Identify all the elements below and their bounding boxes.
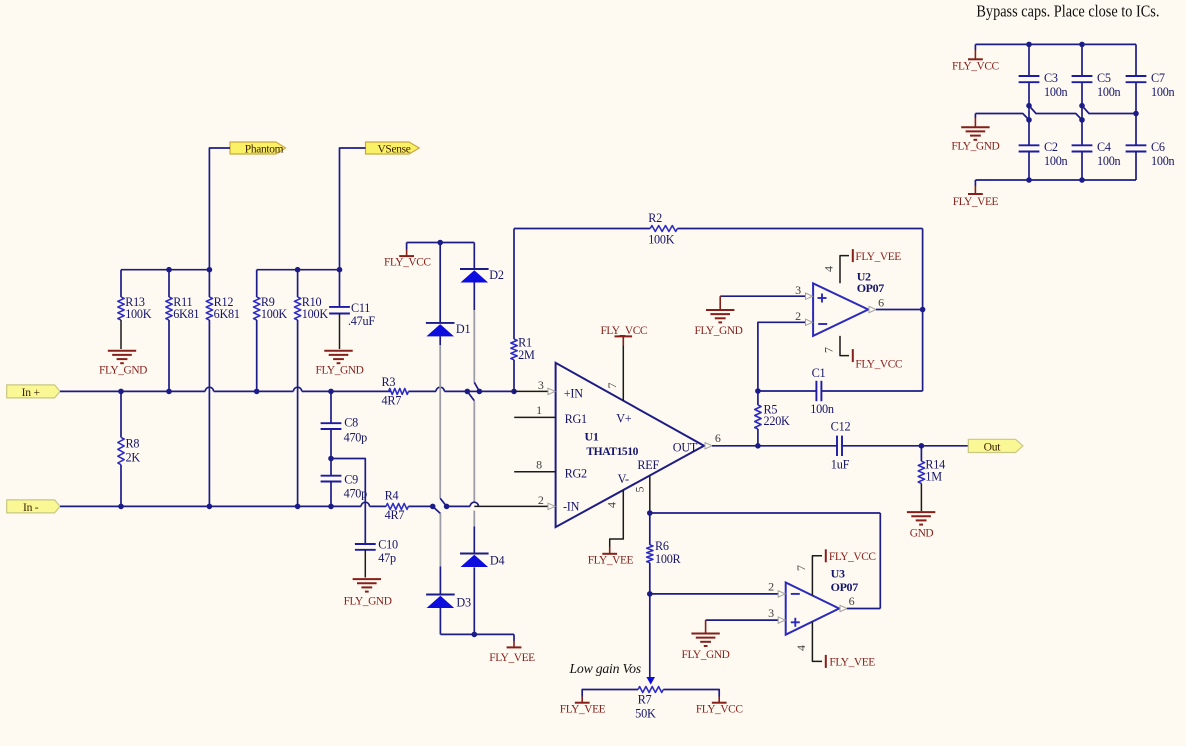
- svg-text:100n: 100n: [1151, 154, 1175, 168]
- power FLY_VCC: [384, 243, 431, 269]
- svg-text:FLY_VCC: FLY_VCC: [384, 256, 431, 268]
- junction: [1026, 42, 1032, 48]
- svg-text:FLY_GND: FLY_GND: [344, 596, 392, 608]
- wire: [479, 390, 514, 392]
- op-amp U3: [786, 566, 859, 634]
- svg-text:In +: In +: [22, 386, 40, 399]
- capacitor C1: [810, 366, 834, 416]
- svg-text:C6: C6: [1151, 140, 1165, 154]
- ground FLY_GND: [682, 620, 730, 661]
- junction: [1079, 103, 1085, 109]
- svg-text:Bypass caps. Place close to IC: Bypass caps. Place close to ICs.: [976, 1, 1159, 20]
- junction: [118, 389, 124, 395]
- wire: [1135, 82, 1137, 145]
- svg-text:100n: 100n: [1044, 85, 1068, 99]
- svg-text:FLY_VEE: FLY_VEE: [588, 555, 634, 567]
- wire: [447, 505, 471, 507]
- svg-text:OP07: OP07: [857, 281, 885, 295]
- svg-text:FLY_GND: FLY_GND: [695, 325, 743, 337]
- resistor R14: [918, 446, 945, 511]
- svg-text:6K81: 6K81: [214, 307, 240, 321]
- svg-text:220K: 220K: [764, 414, 791, 428]
- svg-text:C8: C8: [344, 416, 358, 430]
- ground FLY_GND: [316, 351, 364, 377]
- power FLY_VEE: [560, 697, 606, 716]
- pin 7: [821, 336, 902, 371]
- diode D2: [460, 243, 504, 311]
- svg-text:4R7: 4R7: [382, 394, 402, 408]
- junction: [647, 591, 653, 597]
- svg-text:100K: 100K: [648, 232, 675, 246]
- svg-text:THAT1510: THAT1510: [586, 445, 638, 458]
- pin 2: [758, 309, 813, 391]
- wire: [1135, 44, 1137, 76]
- junction: [1079, 117, 1085, 123]
- svg-text:100K: 100K: [302, 307, 329, 321]
- svg-text:4: 4: [821, 266, 835, 272]
- pin 6: [869, 295, 923, 312]
- diode D3: [426, 595, 471, 635]
- pin 3: [706, 606, 786, 623]
- svg-text:V+: V+: [616, 412, 632, 426]
- pin 3: [514, 378, 555, 394]
- port In+: [7, 385, 60, 399]
- svg-text:470p: 470p: [344, 431, 368, 445]
- diode D4: [460, 554, 504, 635]
- svg-text:D4: D4: [490, 554, 505, 568]
- svg-text:100K: 100K: [125, 307, 152, 321]
- power FLY_VEE: [953, 180, 999, 208]
- svg-text:6: 6: [849, 594, 855, 608]
- pin 4: [794, 622, 875, 669]
- svg-text:.47uF: .47uF: [348, 314, 375, 328]
- svg-text:100n: 100n: [1044, 154, 1068, 168]
- wire: [433, 506, 441, 594]
- capacitor C4: [1072, 140, 1121, 168]
- wire: [436, 387, 467, 391]
- wire: [440, 336, 446, 506]
- resistor R8: [118, 391, 141, 506]
- junction: [295, 267, 301, 273]
- svg-text:FLY_VCC: FLY_VCC: [855, 359, 902, 371]
- svg-text:Phantom: Phantom: [245, 143, 284, 155]
- wire: [922, 229, 924, 310]
- svg-text:5: 5: [633, 487, 647, 493]
- resistor R12: [206, 270, 240, 507]
- svg-text:FLY_VEE: FLY_VEE: [855, 251, 901, 263]
- junction: [1026, 117, 1032, 123]
- svg-text:1: 1: [536, 403, 542, 417]
- svg-text:FLY_VEE: FLY_VEE: [829, 657, 875, 669]
- svg-text:FLY_GND: FLY_GND: [951, 141, 999, 153]
- svg-text:Low gain Vos: Low gain Vos: [569, 661, 641, 676]
- svg-text:2M: 2M: [518, 348, 535, 362]
- svg-text:REF: REF: [637, 458, 659, 472]
- wire: [1081, 82, 1083, 145]
- pin 7: [794, 549, 876, 595]
- ground GND: [907, 512, 935, 540]
- wire: [1029, 106, 1082, 120]
- wire: [1135, 152, 1137, 181]
- junction: [511, 389, 517, 395]
- svg-text:FLY_VEE: FLY_VEE: [953, 196, 999, 208]
- junction: [207, 267, 213, 273]
- pin 4: [605, 490, 624, 547]
- svg-text:50K: 50K: [635, 706, 656, 720]
- resistor R6: [647, 513, 682, 594]
- wire: [975, 179, 1136, 181]
- wire: [257, 269, 340, 271]
- junction: [437, 240, 443, 246]
- svg-text:FLY_VEE: FLY_VEE: [489, 652, 535, 664]
- power FLY_VCC: [952, 44, 999, 72]
- wire: [975, 114, 1029, 120]
- capacitor C2: [1019, 140, 1068, 168]
- svg-text:4R7: 4R7: [385, 508, 405, 522]
- svg-text:GND: GND: [910, 528, 934, 540]
- svg-text:C3: C3: [1044, 71, 1058, 85]
- svg-text:R7: R7: [638, 693, 652, 707]
- svg-text:D2: D2: [489, 268, 504, 282]
- svg-text:4: 4: [605, 502, 619, 508]
- capacitor C10: [355, 538, 398, 578]
- svg-text:V-: V-: [618, 472, 629, 486]
- pin 2: [650, 580, 785, 598]
- svg-text:7: 7: [794, 565, 808, 571]
- svg-text:D3: D3: [456, 595, 471, 609]
- note: [569, 661, 641, 676]
- svg-text:C7: C7: [1151, 71, 1165, 85]
- pin 6: [840, 594, 880, 612]
- junction: [647, 510, 653, 516]
- junction: [166, 389, 172, 395]
- pin 5: [633, 476, 650, 513]
- svg-text:2: 2: [795, 309, 801, 323]
- wire: [842, 445, 968, 447]
- junction: [1079, 177, 1085, 183]
- svg-text:FLY_GND: FLY_GND: [99, 365, 147, 377]
- wire: [473, 527, 475, 554]
- svg-text:C2: C2: [1044, 140, 1058, 154]
- svg-text:3: 3: [768, 606, 774, 620]
- svg-text:U3: U3: [831, 566, 845, 580]
- svg-text:R4: R4: [385, 489, 399, 503]
- svg-text:RG2: RG2: [565, 466, 587, 480]
- wire: [821, 310, 922, 392]
- wire: [582, 690, 638, 697]
- capacitor C3: [1019, 71, 1068, 99]
- junction: [920, 307, 926, 313]
- wire: [1081, 152, 1083, 181]
- potentiometer R7: [635, 677, 663, 720]
- junction: [477, 389, 483, 395]
- net flag VSense: [366, 142, 420, 155]
- wire: [1028, 152, 1030, 181]
- junction: [444, 504, 450, 510]
- wire: [712, 445, 837, 447]
- junction: [755, 443, 761, 449]
- capacitor C11: [329, 270, 375, 349]
- wire: [758, 390, 817, 392]
- ground FLY_GND: [695, 296, 743, 337]
- svg-text:C12: C12: [831, 419, 851, 433]
- wire: [650, 513, 881, 609]
- wire: [975, 43, 1136, 45]
- junction: [337, 267, 343, 273]
- pin 1: [514, 403, 555, 417]
- svg-text:FLY_VCC: FLY_VCC: [600, 325, 647, 337]
- svg-text:100n: 100n: [1097, 85, 1121, 99]
- ground FLY_GND: [951, 114, 999, 153]
- junction: [166, 267, 172, 273]
- resistor R3: [382, 375, 437, 408]
- svg-text:OP07: OP07: [831, 580, 859, 594]
- svg-text:FLY_VCC: FLY_VCC: [829, 551, 876, 563]
- wire: [1081, 44, 1083, 76]
- wire: [440, 633, 514, 635]
- svg-text:100n: 100n: [1097, 154, 1121, 168]
- svg-text:6K81: 6K81: [173, 307, 199, 321]
- resistor R1: [511, 229, 535, 392]
- junction: [465, 389, 471, 395]
- wire: [474, 310, 479, 391]
- resistor R10: [294, 270, 328, 507]
- capacitor C9: [321, 459, 368, 507]
- wire: [1028, 82, 1030, 145]
- svg-text:1M: 1M: [925, 470, 942, 484]
- power FLY_VEE: [489, 634, 535, 664]
- svg-text:R2: R2: [648, 211, 662, 225]
- svg-text:C4: C4: [1097, 140, 1111, 154]
- resistor R5: [755, 391, 790, 446]
- wire: [467, 391, 478, 526]
- svg-text:FLY_VCC: FLY_VCC: [952, 61, 999, 73]
- svg-text:100n: 100n: [810, 402, 834, 416]
- ground FLY_GND: [99, 351, 147, 377]
- pin 6: [705, 431, 721, 449]
- junction: [254, 389, 260, 395]
- svg-text:3: 3: [538, 378, 544, 392]
- svg-text:C11: C11: [351, 301, 370, 315]
- wire: [407, 242, 475, 244]
- svg-text:C1: C1: [812, 366, 826, 380]
- svg-text:47p: 47p: [378, 551, 396, 565]
- svg-text:-IN: -IN: [563, 499, 580, 513]
- svg-text:OUT: OUT: [673, 441, 698, 455]
- junction: [755, 388, 761, 394]
- ground FLY_GND: [344, 579, 392, 607]
- wire: [209, 148, 230, 270]
- svg-text:D1: D1: [456, 322, 471, 336]
- svg-text:7: 7: [821, 347, 835, 353]
- junction: [1026, 177, 1032, 183]
- junction: [1079, 42, 1085, 48]
- svg-text:6: 6: [715, 431, 721, 445]
- svg-text:100R: 100R: [655, 552, 682, 566]
- resistor R4: [385, 489, 433, 523]
- svg-text:U1: U1: [585, 430, 599, 444]
- wire: [649, 594, 651, 678]
- junction: [118, 504, 124, 510]
- svg-text:100n: 100n: [1151, 85, 1175, 99]
- svg-text:+IN: +IN: [564, 386, 583, 400]
- diode D1: [426, 243, 471, 337]
- pin 7: [605, 346, 623, 401]
- svg-text:C5: C5: [1097, 71, 1111, 85]
- svg-text:100K: 100K: [261, 307, 288, 321]
- wire: [60, 387, 391, 391]
- junction: [207, 504, 213, 510]
- wire: [1082, 106, 1136, 114]
- svg-text:470p: 470p: [344, 487, 368, 501]
- svg-text:R8: R8: [126, 436, 140, 450]
- svg-text:FLY_VCC: FLY_VCC: [696, 704, 743, 716]
- note: [976, 1, 1159, 20]
- capacitor C8: [321, 391, 368, 458]
- svg-text:In -: In -: [23, 501, 39, 514]
- junction: [1026, 103, 1032, 109]
- wire: [340, 148, 366, 270]
- junction: [472, 632, 478, 638]
- port Out: [968, 439, 1023, 453]
- wire: [467, 390, 479, 392]
- resistor R13: [118, 270, 152, 349]
- wire: [1028, 44, 1030, 76]
- pin 4: [821, 249, 901, 283]
- junction: [328, 504, 334, 510]
- capacitor C5: [1072, 71, 1121, 99]
- junction: [1133, 111, 1139, 117]
- port In-: [7, 500, 60, 514]
- resistor R11: [166, 270, 200, 392]
- svg-text:RG1: RG1: [565, 412, 587, 426]
- svg-text:FLY_GND: FLY_GND: [682, 649, 730, 661]
- svg-text:6: 6: [878, 295, 884, 309]
- wire: [60, 502, 386, 506]
- pin 2: [474, 493, 555, 509]
- capacitor C7: [1126, 71, 1175, 99]
- svg-text:FLY_GND: FLY_GND: [316, 365, 364, 377]
- wire: [121, 269, 209, 271]
- junction: [295, 504, 301, 510]
- junction: [919, 443, 925, 449]
- svg-text:VSense: VSense: [377, 143, 410, 155]
- capacitor C6: [1126, 140, 1175, 168]
- svg-text:4: 4: [794, 645, 808, 651]
- svg-text:FLY_VEE: FLY_VEE: [560, 704, 606, 716]
- power FLY_VCC: [600, 325, 647, 346]
- power FLY_VEE: [588, 547, 634, 567]
- svg-text:Out: Out: [984, 440, 1002, 453]
- svg-text:7: 7: [605, 383, 619, 389]
- resistor R9: [254, 270, 288, 392]
- pin 8: [514, 458, 555, 472]
- power FLY_VCC: [696, 697, 743, 716]
- svg-text:2: 2: [768, 580, 774, 594]
- op-amp U1: [556, 363, 704, 527]
- svg-text:3: 3: [795, 283, 801, 297]
- wire: [663, 690, 719, 697]
- junction: [430, 504, 436, 510]
- svg-text:C10: C10: [378, 538, 398, 552]
- wire: [331, 459, 365, 545]
- pin 3: [720, 283, 812, 299]
- svg-text:2K: 2K: [126, 450, 141, 464]
- junction: [328, 389, 334, 395]
- svg-text:8: 8: [536, 458, 542, 472]
- net flag Phantom: [230, 142, 286, 155]
- junction: [328, 456, 334, 462]
- svg-text:2: 2: [538, 493, 544, 507]
- op-amp U2: [813, 269, 884, 336]
- svg-text:C9: C9: [344, 473, 358, 487]
- svg-text:1uF: 1uF: [831, 457, 850, 471]
- resistor R2: [514, 211, 923, 246]
- svg-text:R3: R3: [382, 375, 396, 389]
- capacitor C12: [831, 419, 851, 471]
